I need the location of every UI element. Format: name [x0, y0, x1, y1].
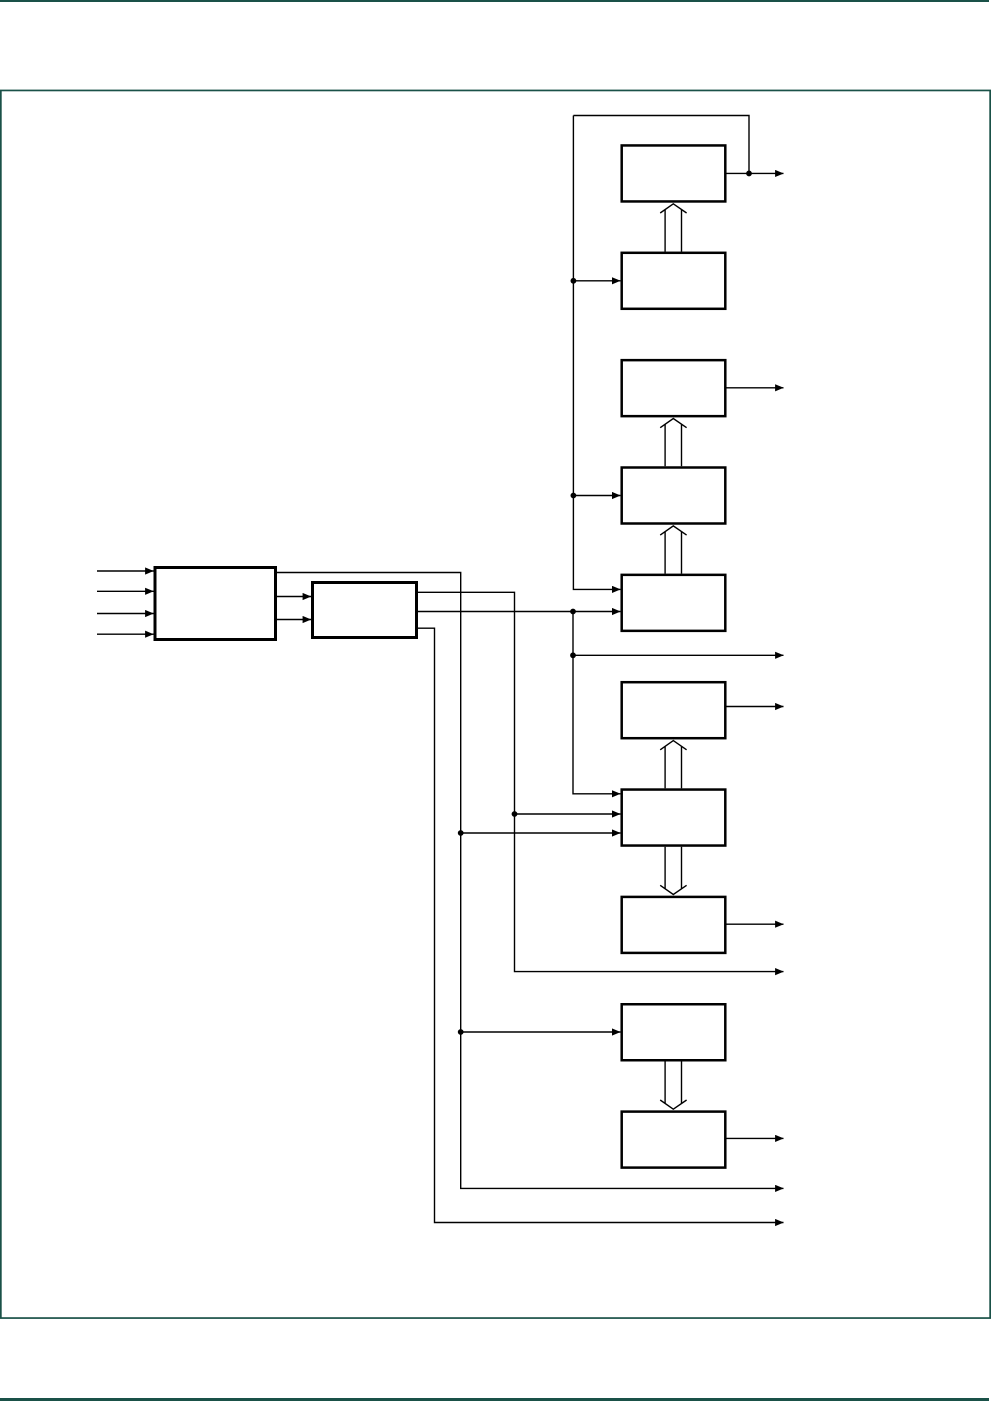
hollow arrow block 5 to block 4: [660, 526, 686, 574]
junction bus block4: [571, 493, 577, 499]
junction bus block9 input: [458, 1029, 464, 1035]
wire tap output arrow: [573, 654, 784, 656]
wire vertical bus upper: [573, 116, 620, 590]
wire block A top output bus down right side: [277, 573, 784, 1189]
wire input 4 to block A: [97, 633, 154, 635]
wire block A to block B lower: [277, 619, 311, 621]
hollow arrow block 9 to block 10: [660, 1062, 686, 1110]
junction bus block7 input3: [458, 830, 464, 836]
wire branch to block 9 input: [461, 1031, 621, 1033]
wire block B output 1 bus: [418, 592, 784, 971]
block 3: [622, 360, 726, 416]
wire input 1 to block A: [97, 570, 154, 572]
wire block 3 output: [727, 387, 784, 389]
hollow arrow block 4 to block 3: [660, 419, 686, 467]
block 7: [622, 790, 726, 846]
wire block B output 3 bus: [418, 628, 784, 1222]
hollow arrow block 7 to block 8: [660, 847, 686, 895]
wire block 10 output: [727, 1137, 784, 1139]
wire branch to block 7 input 2: [515, 813, 621, 815]
wire input 2 to block A: [97, 590, 154, 592]
hollow arrow block 2 to block 1: [660, 204, 686, 252]
block 8: [622, 897, 726, 953]
junction bus tap: [570, 652, 576, 658]
block 10: [622, 1112, 726, 1168]
wire branch to block 4 input: [573, 495, 620, 497]
wire block 1 output: [727, 172, 784, 174]
wire input 3 to block A: [97, 613, 154, 615]
wire block 8 output: [727, 923, 784, 925]
block B (control): [313, 583, 417, 638]
wire branch to block 2 input: [573, 280, 620, 282]
wire block A to block B upper: [277, 596, 311, 598]
block A (input decoder): [155, 568, 276, 640]
wire branch to block 7 input 3: [461, 832, 621, 834]
junction bus block5 line: [570, 609, 576, 615]
junction bus block7 input2: [512, 811, 518, 817]
block 9: [622, 1004, 726, 1060]
hollow arrow block 7 to block 6: [660, 741, 686, 789]
junction bus block2: [571, 278, 577, 284]
block 1: [622, 145, 726, 201]
wire feedback loop top: [573, 116, 749, 174]
junction feedback/output: [746, 171, 752, 177]
block 6: [622, 682, 726, 738]
block 5: [622, 575, 726, 631]
wire vertical bus lower: [573, 612, 620, 794]
footer green rule: [0, 1398, 989, 1401]
wire block B output 2 to block 5 input 2: [418, 611, 620, 613]
block 2: [622, 253, 726, 309]
wire block 6 output: [727, 706, 784, 708]
block 4: [622, 468, 726, 524]
top green rule: [0, 0, 989, 2]
